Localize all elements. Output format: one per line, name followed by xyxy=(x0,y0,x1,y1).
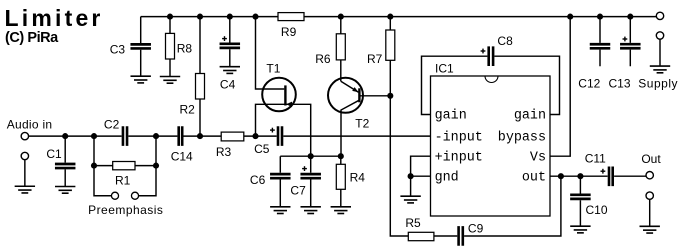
wire gain loop with C8 xyxy=(422,56,560,114)
wire feedback R5 to C9 to out xyxy=(434,176,561,236)
wire C4 branch xyxy=(229,17,231,67)
junction T2 base R7 xyxy=(387,93,393,99)
node preemphasis terminal right xyxy=(131,192,138,199)
svg-text:R9: R9 xyxy=(281,25,297,39)
ground R4 xyxy=(331,207,351,214)
svg-text:T1: T1 xyxy=(266,61,280,75)
wire T1 collector from rail xyxy=(256,17,285,89)
svg-text:R4: R4 xyxy=(350,170,366,184)
node preemphasis terminal left xyxy=(111,192,118,199)
wire C10 branch xyxy=(579,176,581,226)
junction rail C12 xyxy=(597,14,603,20)
wire T2 emitter to R4 rail xyxy=(341,100,359,156)
wire out ground terminal xyxy=(649,199,651,226)
capacitor C13 xyxy=(608,37,640,91)
svg-text:C4: C4 xyxy=(220,78,236,92)
ground R8 xyxy=(160,77,180,84)
capacitor C11 xyxy=(585,151,613,186)
junction sub rail C7 xyxy=(308,153,314,159)
svg-text:C14: C14 xyxy=(171,149,193,163)
junction signal T1 xyxy=(252,133,258,139)
wire C7 branch xyxy=(310,156,312,207)
svg-text:Vs: Vs xyxy=(530,150,546,165)
svg-text:R1: R1 xyxy=(115,174,131,188)
svg-text:R5: R5 xyxy=(405,216,421,230)
resistor R9 xyxy=(278,13,304,39)
svg-text:T2: T2 xyxy=(355,116,369,130)
capacitor C7 xyxy=(290,166,321,197)
svg-text:R3: R3 xyxy=(216,145,232,159)
node supply terminal xyxy=(656,12,663,19)
junction signal R1 right xyxy=(153,133,159,139)
capacitor C5 xyxy=(254,126,282,156)
svg-text:C12: C12 xyxy=(578,76,600,90)
wire C6 C7 R4 sub rail xyxy=(280,155,341,157)
junction out C10 xyxy=(577,173,583,179)
svg-text:IC1: IC1 xyxy=(435,61,454,75)
junction R1 row right xyxy=(153,163,159,169)
svg-text:C11: C11 xyxy=(585,151,606,165)
node out terminal xyxy=(646,172,653,179)
wire R7 branch and feedback to R5 xyxy=(390,17,408,236)
node out ground terminal xyxy=(646,192,653,199)
junction sub rail R4 xyxy=(338,153,344,159)
wire gnd pin xyxy=(411,176,431,196)
capacitor C9 xyxy=(459,222,484,246)
junction rail C4 xyxy=(227,14,233,20)
node supply ground terminal xyxy=(656,32,663,39)
junction signal R1 left xyxy=(91,133,97,139)
wire input ground terminal xyxy=(24,160,26,186)
svg-text:gnd: gnd xyxy=(435,170,459,185)
ground out terminal xyxy=(640,226,660,233)
wire C13 branch xyxy=(629,17,631,67)
capacitor C14 xyxy=(171,126,193,163)
svg-text:R6: R6 xyxy=(315,52,331,66)
wire T1 emitter path xyxy=(256,104,311,156)
svg-text:Preemphasis: Preemphasis xyxy=(88,203,163,217)
ground C4 xyxy=(220,67,240,74)
wire R1 right leg xyxy=(139,136,156,196)
wire R6 branch xyxy=(340,17,342,82)
svg-text:C7: C7 xyxy=(290,184,306,198)
svg-text:gain: gain xyxy=(514,109,546,124)
svg-text:Supply: Supply xyxy=(638,76,677,90)
resistor R2 xyxy=(180,74,205,117)
transistor T1 xyxy=(262,61,296,111)
resistor R6 xyxy=(315,34,345,66)
junction rail R8 xyxy=(167,14,173,20)
capacitor C8 xyxy=(481,34,513,66)
svg-text:(C) PiRa: (C) PiRa xyxy=(5,30,59,46)
svg-text:C3: C3 xyxy=(110,42,126,56)
junction signal R2 xyxy=(197,133,203,139)
svg-text:R8: R8 xyxy=(177,42,193,56)
svg-text:C9: C9 xyxy=(468,222,484,236)
svg-text:C10: C10 xyxy=(585,203,607,217)
resistor R3 xyxy=(216,132,244,159)
ground C3 xyxy=(131,76,151,83)
svg-text:out: out xyxy=(522,170,546,185)
svg-text:R2: R2 xyxy=(180,103,196,117)
wire R8 branch xyxy=(169,17,171,77)
wire C1 branch xyxy=(64,136,66,186)
wire out pin to C11 xyxy=(550,175,646,177)
ground supply terminal xyxy=(650,66,670,73)
capacitor C10 xyxy=(570,195,608,217)
node audio in ground terminal xyxy=(21,152,28,159)
wire T2 base to R7 xyxy=(359,95,390,97)
wire Vs to rail xyxy=(550,17,570,157)
wire audio input line xyxy=(28,135,430,137)
svg-text:C8: C8 xyxy=(497,34,513,48)
capacitor C4 xyxy=(220,36,241,91)
junction rail R7 xyxy=(387,14,393,20)
svg-text:Audio in: Audio in xyxy=(7,118,52,132)
ground C1 xyxy=(55,187,75,194)
node audio in terminal xyxy=(21,132,28,139)
resistor R4 xyxy=(336,164,365,189)
op-amp IC1 body xyxy=(431,61,551,216)
svg-text:gain: gain xyxy=(435,109,467,124)
junction rail C13 xyxy=(627,14,633,20)
svg-text:C6: C6 xyxy=(250,173,266,187)
junction rail R6 xyxy=(338,14,344,20)
resistor R7 xyxy=(367,30,395,66)
svg-text:R7: R7 xyxy=(367,52,383,66)
svg-text:bypass: bypass xyxy=(498,130,546,145)
ground C10 xyxy=(570,226,590,233)
junction rail Vs xyxy=(567,14,573,20)
svg-text:-input: -input xyxy=(435,130,483,145)
wire R4 branch xyxy=(340,156,342,207)
capacitor C12 xyxy=(578,44,610,90)
ground input terminal xyxy=(15,186,35,193)
svg-text:C13: C13 xyxy=(608,76,630,90)
wire top supply rail xyxy=(141,16,657,18)
wire T2 collector diagonal xyxy=(341,81,359,92)
resistor R5 xyxy=(405,216,434,241)
resistor R1 xyxy=(113,162,135,188)
wire C12 branch xyxy=(599,17,601,67)
junction rail T1 xyxy=(252,14,258,20)
wire R1 left leg xyxy=(94,136,111,196)
capacitor C2 xyxy=(104,117,127,146)
svg-text:C2: C2 xyxy=(104,117,120,131)
junction R1 row left xyxy=(91,163,97,169)
svg-text:C1: C1 xyxy=(46,147,62,161)
ground C7 xyxy=(301,207,321,214)
junction out feedback xyxy=(558,173,564,179)
wire +input xyxy=(411,156,431,176)
capacitor C6 xyxy=(250,173,291,187)
wire R2 branch xyxy=(199,17,201,137)
svg-text:Out: Out xyxy=(641,152,661,166)
junction IC gnd xyxy=(408,173,414,179)
ground C6 xyxy=(270,207,290,214)
wire C3 branch xyxy=(140,17,142,77)
resistor R8 xyxy=(166,33,193,59)
transistor T2 xyxy=(328,78,370,131)
capacitor C1 xyxy=(46,147,75,168)
capacitor C3 xyxy=(110,42,151,56)
junction rail R2 xyxy=(197,14,203,20)
ground IC gnd pin xyxy=(400,196,420,203)
svg-text:+input: +input xyxy=(435,150,483,165)
svg-text:Limiter: Limiter xyxy=(5,5,104,31)
wire R1 row xyxy=(94,165,156,167)
svg-text:C5: C5 xyxy=(254,142,270,156)
wire supply ground terminal xyxy=(659,39,661,66)
junction signal C1 xyxy=(62,133,68,139)
wire C6 branch xyxy=(279,156,281,207)
